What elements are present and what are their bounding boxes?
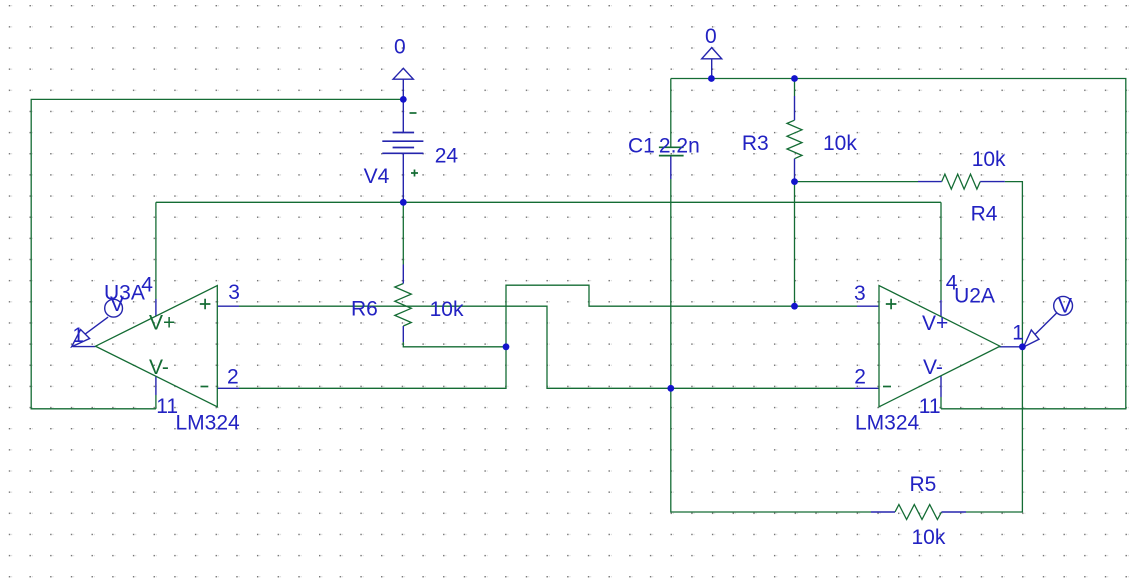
svg-text:V-: V- <box>149 356 169 379</box>
svg-text:V: V <box>1058 295 1072 318</box>
svg-text:11: 11 <box>919 395 941 418</box>
svg-text:10k: 10k <box>972 148 1006 171</box>
svg-text:V-: V- <box>923 356 943 379</box>
svg-text:R4: R4 <box>971 203 998 226</box>
svg-text:U3A: U3A <box>104 281 145 304</box>
svg-text:2: 2 <box>227 366 239 389</box>
svg-text:10k: 10k <box>912 526 946 549</box>
svg-text:4: 4 <box>141 274 153 297</box>
svg-text:1: 1 <box>1012 321 1024 344</box>
svg-text:C1: C1 <box>628 135 655 158</box>
svg-text:R5: R5 <box>910 473 937 496</box>
svg-text:V4: V4 <box>364 165 390 188</box>
svg-text:U2A: U2A <box>954 285 995 308</box>
svg-text:10k: 10k <box>430 298 464 321</box>
svg-text:10k: 10k <box>823 132 857 155</box>
svg-text:24: 24 <box>435 145 459 168</box>
svg-text:0: 0 <box>394 35 406 58</box>
svg-text:2.2n: 2.2n <box>659 135 700 158</box>
svg-text:V+: V+ <box>149 312 175 335</box>
svg-text:3: 3 <box>228 281 240 304</box>
svg-text:0: 0 <box>705 25 717 48</box>
svg-text:2: 2 <box>854 366 866 389</box>
svg-text:LM324: LM324 <box>855 412 920 435</box>
svg-text:3: 3 <box>854 282 866 305</box>
svg-text:R6: R6 <box>351 298 378 321</box>
svg-text:V+: V+ <box>922 312 948 335</box>
svg-text:1: 1 <box>72 324 84 347</box>
svg-text:LM324: LM324 <box>176 412 241 435</box>
svg-text:R3: R3 <box>742 132 769 155</box>
